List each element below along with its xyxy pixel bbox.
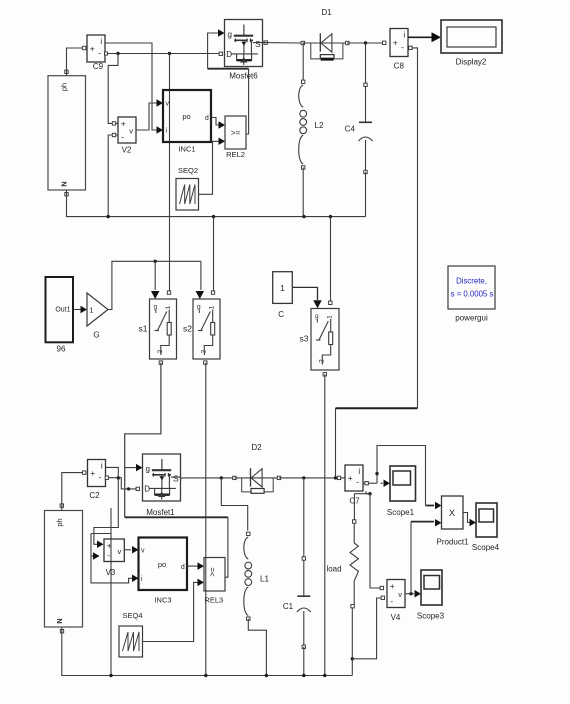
svg-text:96: 96 xyxy=(57,345,66,354)
svg-text:g: g xyxy=(197,304,201,311)
svg-text:-: - xyxy=(390,596,393,606)
svg-text:Display2: Display2 xyxy=(456,58,487,67)
svg-text:i: i xyxy=(403,31,405,40)
svg-text:L1: L1 xyxy=(260,575,269,584)
svg-text:SEQ2: SEQ2 xyxy=(178,166,198,175)
svg-text:>=: >= xyxy=(231,129,241,138)
svg-text:D2: D2 xyxy=(251,443,262,452)
svg-text:d: d xyxy=(205,115,209,122)
svg-text:D: D xyxy=(144,485,150,494)
svg-text:v: v xyxy=(166,101,170,108)
svg-text:D: D xyxy=(226,50,232,59)
svg-text:C8: C8 xyxy=(394,62,405,71)
svg-text:REL3: REL3 xyxy=(204,596,223,605)
svg-text:Discrete,: Discrete, xyxy=(456,277,487,286)
svg-text:Out1: Out1 xyxy=(55,307,70,314)
svg-text:-: - xyxy=(98,48,101,58)
svg-text:-: - xyxy=(99,472,102,482)
svg-text:Product1: Product1 xyxy=(436,538,469,547)
svg-text:S: S xyxy=(255,39,261,49)
svg-text:G: G xyxy=(93,331,99,340)
svg-text:s3: s3 xyxy=(300,334,309,344)
svg-text:C2: C2 xyxy=(89,491,100,500)
svg-text:s = 0.0005 s: s = 0.0005 s xyxy=(451,290,494,299)
svg-text:N: N xyxy=(55,618,64,623)
svg-text:1: 1 xyxy=(327,315,334,319)
svg-text:1: 1 xyxy=(209,305,216,309)
svg-text:+: + xyxy=(121,119,126,129)
svg-text:+: + xyxy=(90,468,95,478)
svg-text:Scope4: Scope4 xyxy=(472,543,500,552)
svg-text:Scope3: Scope3 xyxy=(417,612,445,621)
svg-text:load: load xyxy=(326,565,341,574)
svg-text:C9: C9 xyxy=(93,62,104,71)
svg-text:N: N xyxy=(60,181,69,186)
svg-text:+: + xyxy=(390,581,395,591)
svg-text:powergui: powergui xyxy=(455,314,488,323)
svg-text:i: i xyxy=(100,37,102,46)
svg-text:X: X xyxy=(449,508,455,518)
svg-text:>=: >= xyxy=(208,567,217,577)
svg-text:D1: D1 xyxy=(321,8,332,17)
svg-text:+: + xyxy=(107,541,112,551)
svg-text:INC3: INC3 xyxy=(154,596,171,605)
svg-text:C1: C1 xyxy=(283,602,294,611)
svg-text:d: d xyxy=(181,564,185,571)
svg-text:-: - xyxy=(401,42,404,52)
svg-text:1: 1 xyxy=(89,306,93,315)
svg-text:-: - xyxy=(356,477,359,487)
svg-text:i: i xyxy=(358,467,360,476)
svg-text:C: C xyxy=(278,310,284,319)
svg-text:V3: V3 xyxy=(106,568,116,577)
svg-text:REL2: REL2 xyxy=(226,150,245,159)
svg-text:ph: ph xyxy=(55,518,64,526)
svg-text:INC1: INC1 xyxy=(178,145,195,154)
svg-text:+: + xyxy=(348,473,353,483)
svg-text:-: - xyxy=(107,550,110,560)
svg-text:S: S xyxy=(173,474,179,484)
svg-text:v: v xyxy=(129,127,133,136)
svg-text:Mosfet1: Mosfet1 xyxy=(146,508,175,517)
svg-text:Scope1: Scope1 xyxy=(387,508,415,517)
svg-text:s2: s2 xyxy=(183,324,192,334)
svg-text:SEQ4: SEQ4 xyxy=(122,611,142,620)
svg-text:v: v xyxy=(398,590,402,599)
svg-text:v: v xyxy=(141,548,145,555)
svg-text:g: g xyxy=(315,313,319,320)
svg-text:V2: V2 xyxy=(122,146,132,155)
svg-text:L2: L2 xyxy=(315,121,324,130)
svg-text:ph: ph xyxy=(60,83,69,91)
svg-text:Mosfet6: Mosfet6 xyxy=(229,72,258,81)
svg-text:1: 1 xyxy=(165,305,172,309)
svg-text:1: 1 xyxy=(280,283,285,293)
svg-text:i: i xyxy=(101,462,103,471)
svg-text:po: po xyxy=(158,560,166,569)
svg-text:g: g xyxy=(146,465,150,474)
svg-text:g: g xyxy=(228,30,232,39)
svg-text:+: + xyxy=(90,44,95,54)
svg-text:s1: s1 xyxy=(139,324,148,334)
svg-text:+: + xyxy=(393,38,398,48)
svg-text:v: v xyxy=(118,547,122,556)
svg-text:po: po xyxy=(182,112,190,121)
svg-text:C4: C4 xyxy=(345,125,356,134)
svg-text:-: - xyxy=(121,132,124,142)
svg-text:g: g xyxy=(154,304,158,311)
svg-text:V4: V4 xyxy=(391,613,401,622)
